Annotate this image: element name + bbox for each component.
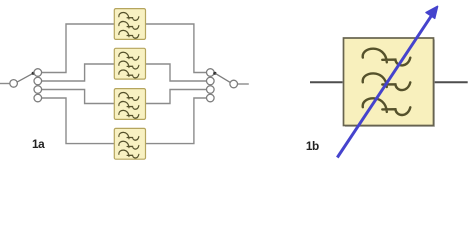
switch SW1 throw contact 1: [34, 69, 42, 77]
tunable filter box: [344, 38, 434, 126]
tunable filter box shadow: [345, 40, 435, 128]
switch SW2 arm: [216, 74, 231, 83]
switch SW2 throw contact 3: [207, 86, 215, 94]
wire: throw1 to box1 (left): [42, 24, 115, 73]
wire: box1 to throw1 (right): [146, 24, 207, 73]
tuning arrow head: [426, 6, 438, 18]
switch SW2 pole contact (right): [230, 80, 238, 88]
switch SW2 throw contact 2: [207, 77, 215, 85]
wire: input lead: [0, 83, 10, 85]
switch SW1 pole contact (left): [10, 80, 18, 88]
switch SW2 throw contact 1: [207, 69, 215, 77]
tuning arrow shaft: [337, 16, 431, 157]
switch SW2 arm tip dot: [213, 72, 216, 75]
wire: right lead: [433, 81, 468, 83]
svg-text:1b: 1b: [306, 139, 319, 153]
filter F3: [114, 89, 145, 120]
wire: output lead: [237, 83, 248, 85]
filter F4: [114, 128, 145, 159]
switch SW1 throw contact 2: [34, 77, 42, 85]
wire: box2 to throw2 (right): [146, 64, 207, 81]
wire: box4 to throw4 (right): [146, 98, 207, 144]
svg-text:1a: 1a: [32, 137, 45, 151]
switch SW1 arm: [17, 74, 32, 82]
wire: left lead: [310, 81, 343, 83]
switch SW1 throw contact 3: [34, 86, 42, 94]
filter F2: [114, 48, 145, 79]
wire: throw3 to box3 (left): [42, 90, 115, 104]
filter glyph 1 (1b): [363, 49, 411, 66]
filter F1: [114, 9, 145, 40]
switch SW2 throw contact 4: [207, 94, 215, 102]
wire: throw2 to box2 (left): [42, 64, 115, 81]
wire: box3 to throw3 (right): [146, 90, 207, 104]
wire: throw4 to box4 (left): [42, 98, 115, 144]
switch SW1 arm tip dot: [32, 72, 35, 75]
filter glyph 3 (1b): [363, 98, 411, 115]
filter glyph 2 (1b): [363, 73, 411, 90]
switch SW1 throw contact 4: [34, 94, 42, 102]
